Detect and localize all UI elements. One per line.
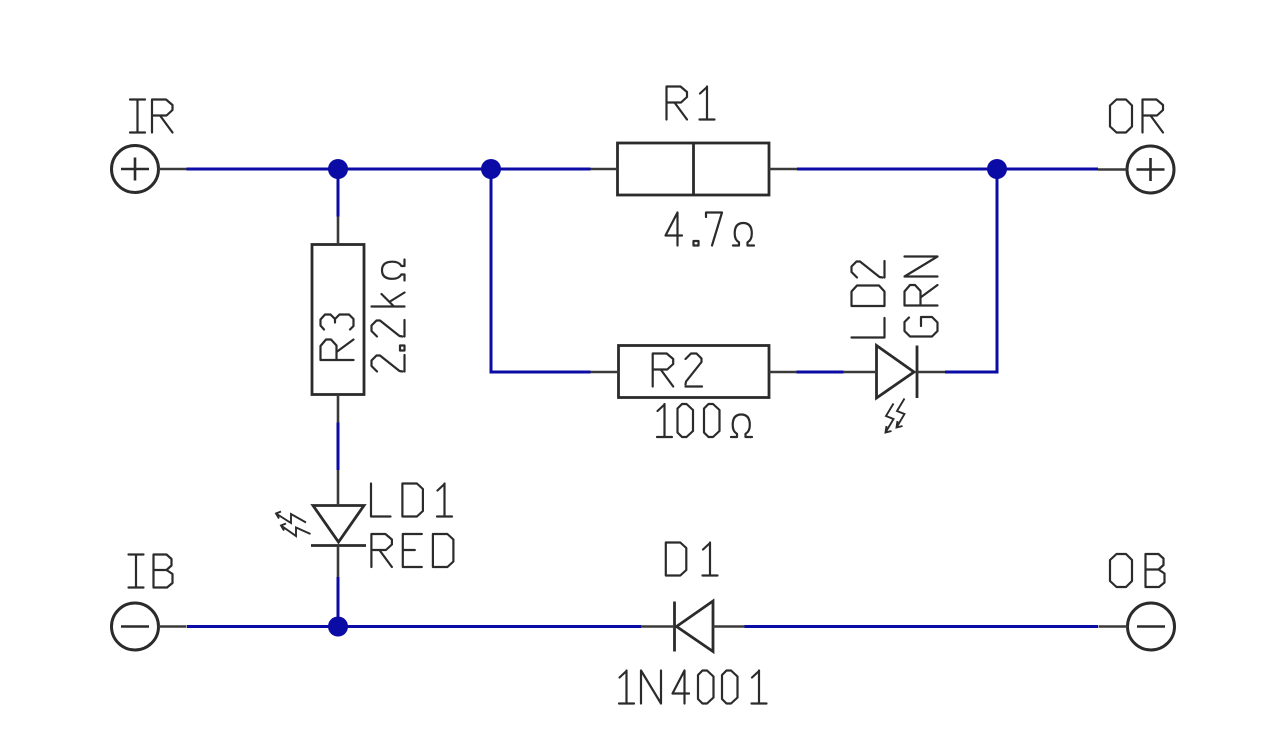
wire R3 to LD1 [337,423,340,471]
refdes R2 [653,354,702,387]
wire bottom rail left [187,625,641,628]
terminal OB [1128,603,1175,650]
terminal OR [1127,146,1174,193]
label IR [130,100,173,133]
refdes LD2 [852,261,885,338]
junction top-mid [481,159,501,179]
wire middle branch left [491,169,591,372]
value 100ohm [657,404,752,437]
value RED [371,534,453,567]
refdes R1 [667,87,715,120]
refdes D1 [666,543,718,576]
value GRN [905,257,938,337]
LD1 light arrows [276,512,311,537]
value 2.2kohm [372,260,405,372]
value 4.7ohm [666,213,755,246]
terminal IB [112,603,159,650]
LD2 light arrows [886,399,905,433]
wire top rail right [797,168,1098,171]
wire LD2 to top rail [945,169,997,372]
LED LD1 [311,506,366,546]
wire R3 top [337,169,340,217]
wire LD1 to bottom rail [337,577,340,627]
diode D1 [675,601,714,652]
terminal IR [112,146,159,193]
wire top rail left [187,168,591,171]
wire R2 to LD2 [797,371,844,374]
value 1N4001 [619,671,767,704]
refdes LD1 [371,484,452,517]
label OR [1110,100,1163,133]
resistor R2 [619,346,770,398]
junction top-left [328,159,348,179]
refdes R3 [321,315,354,361]
resistor R1 [618,143,770,195]
label OB [1110,554,1165,587]
junction top-right [987,159,1007,179]
LED LD2 [877,346,918,399]
junction bottom [328,617,348,637]
wire bottom rail right [745,625,1099,628]
resistor R3 [312,245,364,395]
label IB [129,555,173,588]
